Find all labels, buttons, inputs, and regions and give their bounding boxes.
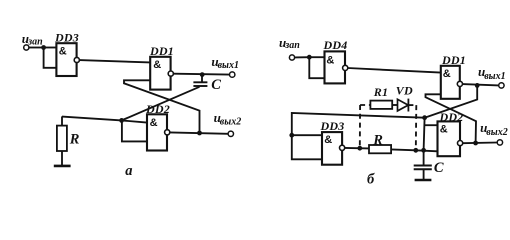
wire node to DD3 pin2	[44, 48, 57, 68]
svg-text:&: &	[59, 46, 67, 58]
svg-text:а: а	[125, 163, 132, 179]
output terminal u_vyh2 (b)	[497, 140, 502, 145]
output terminal u_vyh1	[230, 72, 235, 77]
node DD2 output (b)	[473, 141, 478, 146]
gate DD3 box	[56, 43, 76, 76]
label DD1	[149, 44, 174, 58]
wire C to ground (b)	[423, 169, 425, 180]
svg-text:зап: зап	[27, 36, 43, 47]
label & in DD2 (b)	[440, 123, 448, 135]
wire node to DD3 pin1 (b)	[292, 134, 322, 136]
wire dashed right horizontal	[408, 104, 416, 106]
gate DD4 box	[325, 51, 346, 83]
node at DD3 input	[41, 45, 46, 50]
wire input to node	[29, 47, 44, 49]
output terminal u_vyh1 (b)	[499, 83, 504, 88]
label & in DD3 (b)	[324, 134, 332, 146]
svg-text:DD2: DD2	[439, 110, 464, 124]
label R	[69, 131, 80, 147]
gate DD1 box	[150, 57, 170, 90]
wire DD2 out to terminal	[170, 132, 228, 133]
capacitor C	[193, 82, 207, 86]
DD1 output bubble	[168, 71, 173, 76]
label u_vyh1	[211, 54, 239, 71]
input terminal u_zap	[24, 45, 29, 50]
svg-text:R: R	[69, 131, 80, 147]
wire DD1 pin2 to DD2 output (cross feedback, b)	[426, 94, 477, 143]
label u_vyh2	[214, 110, 242, 128]
svg-text:C: C	[211, 77, 221, 93]
input terminal u_zap (b)	[289, 55, 294, 60]
ground	[54, 165, 71, 168]
label DD1 (b)	[441, 53, 466, 67]
node DD1 output (b)	[475, 83, 480, 88]
label u_zap	[22, 31, 43, 47]
label b	[367, 172, 375, 188]
node at DD4 input	[307, 55, 312, 60]
label & in DD1 (b)	[443, 68, 451, 80]
svg-text:&: &	[153, 59, 161, 71]
label & in DD4	[326, 54, 334, 66]
svg-text:DD1: DD1	[149, 44, 174, 58]
node at DD3 input (b)	[289, 133, 294, 138]
label R1	[373, 85, 388, 99]
wire dashed right vertical	[415, 105, 418, 150]
svg-text:б: б	[367, 172, 375, 188]
label VD	[396, 84, 413, 98]
wire DD3 out to DD1 pin1	[79, 60, 150, 62]
label u_zap (b)	[279, 35, 300, 51]
svg-text:DD4: DD4	[323, 38, 348, 52]
wire node to DD3 pin1	[44, 47, 57, 49]
wire node to DD2 pin1	[122, 120, 147, 122]
label DD2 (b)	[439, 110, 464, 124]
node capacitor top (b)	[421, 148, 426, 153]
wire C to DD2 input node (diagonal)	[122, 87, 200, 121]
label u_vyh2 (b)	[480, 120, 508, 138]
label C	[211, 77, 221, 93]
wire DD3 out to resistor R (b)	[345, 147, 369, 150]
gate DD1 box (b)	[441, 66, 460, 99]
resistor R lead bottom	[61, 151, 63, 166]
wire DD1 pin2 to DD2 output (cross feedback)	[124, 80, 200, 133]
DD4 output bubble	[343, 65, 348, 70]
svg-text:&: &	[150, 117, 158, 129]
wire DD1 out to terminal (b)	[463, 84, 499, 85]
svg-text:&: &	[440, 123, 448, 135]
svg-text:вых1: вых1	[218, 60, 239, 71]
label & in DD1	[153, 59, 161, 71]
svg-text:C: C	[434, 160, 444, 176]
capacitor C (b)	[414, 166, 432, 170]
label DD3 (b)	[320, 119, 345, 133]
gate DD2 box	[147, 114, 167, 150]
ground (b)	[415, 179, 432, 181]
wire DD1 out to terminal	[173, 73, 229, 76]
svg-text:R1: R1	[373, 85, 388, 99]
label DD3	[54, 31, 79, 45]
wire DD1 out to node A (cross)	[425, 85, 478, 117]
wire DD2 out to terminal (b)	[463, 142, 497, 145]
wire node to capacitor C	[201, 75, 203, 82]
svg-text:вых2: вых2	[486, 127, 507, 138]
node DD2 output	[197, 131, 202, 136]
wire to DD2 pin1 (b)	[425, 124, 438, 126]
svg-text:&: &	[326, 54, 334, 66]
DD3 output bubble (b)	[340, 145, 345, 150]
wire node to DD3 pin2 (b)	[292, 135, 322, 159]
wire R to DD2 input node	[62, 117, 122, 121]
svg-text:VD: VD	[396, 84, 413, 98]
label u_vyh1 (b)	[478, 64, 506, 82]
DD1 output bubble (b)	[457, 81, 462, 86]
output terminal u_vyh2	[228, 131, 233, 136]
label a	[125, 163, 132, 179]
label R (b)	[372, 133, 383, 149]
label DD4	[323, 38, 348, 52]
svg-text:вых1: вых1	[484, 71, 505, 82]
wire R to node C (b)	[391, 149, 437, 151]
resistor R	[57, 126, 67, 151]
svg-text:DD2: DD2	[145, 102, 170, 116]
resistor R lead top	[61, 116, 63, 125]
wire node to DD2 pin2	[122, 120, 147, 141]
svg-text:R: R	[372, 133, 383, 149]
node DD1 output	[200, 72, 205, 77]
DD2 output bubble (b)	[458, 141, 463, 146]
node A	[422, 115, 427, 120]
svg-text:&: &	[324, 134, 332, 146]
gate DD3 box (b)	[322, 132, 342, 165]
node dashed branch left bottom	[357, 146, 362, 151]
wire node to DD4 pin2	[309, 57, 324, 78]
label C (b)	[434, 160, 444, 176]
wire node A to capacitor node (vertical)	[424, 118, 425, 151]
label & in DD2	[150, 117, 158, 129]
diode VD	[398, 99, 409, 112]
DD3 output bubble	[74, 57, 79, 62]
wire dashed left vertical	[359, 105, 361, 148]
resistor R (b)	[369, 145, 391, 153]
wire DD4 out to DD1 pin1 (b)	[348, 68, 441, 73]
svg-text:вых2: вых2	[220, 116, 241, 127]
node DD2 input	[119, 118, 124, 123]
gate DD2 box (b)	[438, 121, 461, 156]
svg-text:DD1: DD1	[441, 53, 466, 67]
svg-text:зап: зап	[284, 40, 300, 51]
node dashed branch right bottom	[413, 148, 418, 153]
wire node A to DD3 inputs (b)	[292, 113, 425, 135]
wire node to DD4 pin1	[309, 56, 324, 58]
wire R1 to VD	[392, 104, 397, 106]
wire input to node (b)	[295, 56, 310, 58]
svg-text:&: &	[443, 68, 451, 80]
label DD2	[145, 102, 170, 116]
resistor R1	[370, 101, 392, 109]
DD2 output bubble	[165, 130, 170, 135]
svg-text:DD3: DD3	[54, 31, 79, 45]
wire dashed left horizontal	[360, 104, 370, 106]
wire capacitor node to C (b)	[423, 151, 425, 165]
label & in DD3	[59, 46, 67, 58]
svg-text:DD3: DD3	[320, 119, 345, 133]
